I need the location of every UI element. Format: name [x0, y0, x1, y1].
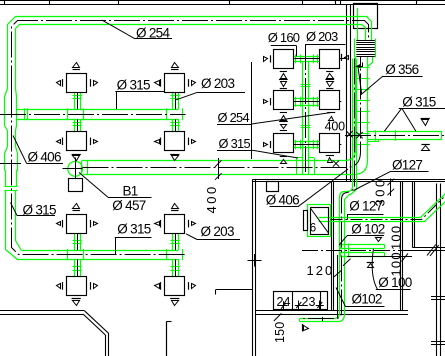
svg-text:Ø 406: Ø 406: [266, 192, 299, 207]
centerline right stubs: [294, 58, 346, 60]
diffuser right row1 colB right arrow: [341, 54, 343, 61]
duct upper branch start collars: [24, 108, 26, 120]
centerline Ø315 right branch: [345, 135, 444, 137]
wall: far right tick pair upper: [431, 296, 445, 298]
diffuser right row1 inflow arrow: [264, 57, 268, 62]
right colB row2-3 symbol and 400 label: [327, 112, 335, 114]
centerline pair B riser to bottom run: [303, 59, 355, 319]
duct Ø457 main run green lines: [82, 57, 356, 161]
duct middle riser green pair: [302, 62, 304, 175]
diffuser row3 col1 box: [67, 215, 87, 234]
label Ø100 underline+arc leader: [376, 289, 411, 291]
stair grille hatch lines: [356, 40, 375, 42]
wall: bottom-left vertical pair: [108, 334, 110, 356]
fan B1 motor box: [69, 179, 83, 192]
svg-text:Ø 203: Ø 203: [201, 224, 234, 239]
label Ø406 left underline+leader: [27, 163, 64, 165]
wall: door/column box on lower top wall: [267, 182, 279, 192]
centerline stubs col2: [175, 92, 177, 109]
svg-text:23: 23: [302, 295, 316, 309]
duct Ø127 run green lines: [319, 194, 445, 218]
diffuser row4 col2 box: [165, 277, 185, 296]
svg-text:300: 300: [372, 177, 387, 206]
duct riser-to-lower-room pair (pair B): [300, 59, 353, 319]
wall: lower rooms top double line: [252, 179, 445, 181]
svg-text:150: 150: [273, 322, 287, 343]
diffuser row4 col2 left arrow: [155, 284, 160, 289]
diffuser row2 col1 box: [67, 132, 87, 151]
duct lower-left elbow chamfer: [6, 241, 22, 260]
svg-text:Ø 406: Ø 406: [28, 149, 61, 164]
diffuser right row3 colA box: [274, 134, 294, 153]
dim 400 line and slashes on duct: [218, 158, 220, 179]
label Ø203 row1 underline+leader: [198, 92, 246, 94]
diffuser row2 col2 return-down symbol: [170, 154, 179, 156]
wall: far right tick pair lower: [431, 341, 445, 343]
diffuser row4 col2 right arrow: [188, 282, 190, 290]
svg-text:Ø 254: Ø 254: [136, 25, 170, 40]
diffuser row4 col2 return-down symbol: [170, 298, 179, 300]
centerline bar ducts lower: [347, 256, 412, 258]
damper tick on bottom run: [322, 317, 324, 321]
symbol delta right of branch: [422, 146, 430, 151]
duct Ø254 outer green line (top+left outer): [8, 17, 372, 89]
label Ø127 upper underline+leader: [391, 171, 429, 173]
label Ø315 branch triangle legs: [384, 108, 401, 131]
symbol nabla right of branch: [421, 118, 430, 120]
dim 150 slash: [274, 313, 282, 321]
duct riser flange joints: [354, 67, 370, 69]
diffuser row2 col2 box: [165, 132, 185, 151]
svg-text:Ø 203: Ø 203: [306, 29, 338, 44]
diffuser row1 col2 box: [165, 74, 185, 93]
diffuser row1 col1 right arrow: [90, 79, 92, 87]
svg-text:400: 400: [325, 119, 346, 133]
svg-text:Ø 315: Ø 315: [117, 77, 150, 92]
duct Ø254 inner green line (top+left inner): [16, 25, 366, 89]
duct stub col1 row3 (down from box): [74, 233, 76, 250]
duct bottom branch run green lines: [22, 250, 179, 252]
svg-text:Ø127: Ø127: [392, 157, 422, 172]
diffuser row2 col1 right arrow: [90, 138, 92, 146]
duct flange joint left vertical: [4, 186, 17, 188]
silencer unit 6 diagonal: [310, 208, 328, 233]
diffuser row1 col2 supply-up symbol: [172, 63, 179, 68]
duct middle riser flange joints: [301, 84, 311, 86]
wall: horizontal stub right room: [413, 247, 445, 249]
duct stub col1 row2 (up from box): [74, 119, 76, 132]
silencer unit 6 black body: [311, 208, 329, 235]
svg-text:Ø 315: Ø 315: [402, 95, 435, 110]
duct step-in at left vertical: [5, 170, 6, 172]
centerline Ø457 run with riser arc: [83, 57, 361, 168]
diffuser row2 col2 left arrow: [155, 140, 160, 144]
label Ø254 mid underline+leader: [217, 124, 252, 126]
centerline bar ducts upper: [302, 250, 432, 252]
junction X marks on Ø457: [333, 160, 339, 166]
svg-text:6: 6: [310, 223, 316, 235]
fan B1 cross lines: [75, 158, 77, 180]
wall: bottom-left chamfer diagonals: [85, 311, 109, 334]
silencer unit 6 green outline: [308, 205, 331, 237]
symbol air outlet mark bottom: [302, 324, 304, 332]
duct Ø102 bar 1 green outline: [340, 244, 385, 246]
table dividers: [292, 291, 294, 309]
svg-text:Ø 102: Ø 102: [351, 222, 384, 237]
label Ø315 lowleft underline+leader: [17, 215, 55, 217]
svg-text:Ø 315: Ø 315: [117, 221, 150, 236]
svg-text:Ø 254: Ø 254: [218, 110, 250, 125]
diffuser row4 col1 box: [67, 277, 87, 296]
table box: [274, 292, 328, 310]
right colA below row3 symbol: [280, 156, 287, 158]
centerline stubs col1: [77, 92, 79, 109]
duct Ø356 left vertical middle section: [6, 171, 17, 187]
wall: riser shaft box outline: [354, 4, 378, 29]
label Ø406 right underline+leader: [270, 206, 298, 208]
fan B1 inlet circle: [68, 161, 83, 176]
svg-text:Ø 315: Ø 315: [23, 202, 56, 217]
diffuser row3 col1 left arrow: [57, 222, 61, 226]
wall: riser shaft vertical pair: [346, 4, 348, 182]
diffuser right row2 inflow arrow: [264, 100, 268, 104]
duct stub col2 row1 (down from box): [172, 92, 174, 109]
dimension extension vline: [251, 62, 253, 159]
label Ø315 row3 underline+drop: [115, 237, 152, 239]
table cross marks: [280, 305, 288, 307]
duct stub col1 row4 (up from box): [74, 259, 76, 276]
diffuser row4 col1 left arrow: [57, 284, 61, 289]
label Ø315 row1 underline+drop: [115, 91, 165, 93]
duct stub right-group row3: [294, 141, 320, 143]
wall: far right vertical pair: [436, 184, 438, 356]
label B1 underline: [108, 197, 152, 199]
wall: slash marks on right stub wall: [427, 245, 436, 256]
centerline upper branch: [0, 114, 186, 116]
wall: tick on left room wall: [248, 260, 262, 262]
wall: short vertical pair upper right room: [412, 182, 414, 248]
diffuser row2 col2 right arrow: [188, 138, 190, 146]
diffuser right row2 colA box: [274, 91, 294, 110]
duct transition flare upper left: [5, 89, 17, 97]
diffuser row4 col1 return-down symbol: [72, 298, 81, 300]
svg-text:Ø102: Ø102: [352, 292, 382, 307]
label Ø127 mid underline+drop: [347, 214, 384, 216]
duct bar joint tick: [348, 243, 350, 257]
diffuser right row1 colB box: [320, 50, 340, 69]
diffuser right row3 colB box: [320, 134, 340, 153]
duct riser green line through shaft box: [357, 8, 359, 40]
svg-text:Ø 356: Ø 356: [385, 62, 418, 77]
label Ø102 upper underline+leader: [347, 235, 384, 237]
diffuser row1 col1 box: [67, 74, 87, 93]
svg-text:Ø 315: Ø 315: [219, 136, 251, 151]
right colA row2-3 symbols: [280, 112, 287, 114]
svg-text:Ø 160: Ø 160: [268, 30, 300, 45]
duct tee collar at upper branch: [5, 97, 17, 126]
centerline middle riser: [305, 44, 307, 172]
wall: top exterior double line: [0, 0, 445, 2]
svg-text:B1: B1: [123, 183, 138, 198]
diffuser row1 col2 right arrow: [188, 79, 190, 87]
duct Ø406 narrow between branches: [8, 131, 16, 147]
wall: top wall partition ticks: [4, 0, 6, 5]
wall: bottom middle vertical line: [166, 321, 168, 356]
label Ø356 underline+leader: [383, 76, 423, 78]
ladder green frame: [354, 39, 356, 58]
extension line at left edge: [0, 163, 21, 165]
duct stub col1 row1 (down from box): [74, 92, 76, 109]
diffuser row3 col2 left arrow: [155, 222, 160, 226]
label Ø102 lower underline+leader: [346, 306, 385, 308]
label Ø315 branch underline: [399, 108, 445, 110]
centerline left vertical to bottom branch: [12, 92, 186, 255]
diffuser row3 col1 supply-up symbol: [73, 204, 80, 209]
wall: vertical pair plant room right: [400, 182, 402, 311]
duct stub right-group row1: [294, 56, 320, 58]
svg-text:120: 120: [307, 263, 335, 278]
duct stub col2 row4 (up from box): [172, 259, 174, 276]
label Ø160 underline+drop: [271, 45, 297, 47]
diffuser row1 col2 left arrow: [155, 81, 160, 86]
right colA row1-2 symbols: [280, 71, 287, 73]
duct Ø315 right branch flange ticks: [375, 130, 377, 141]
duct Ø315 left vertical lower section: [6, 191, 16, 250]
svg-text:Ø 203: Ø 203: [201, 76, 234, 91]
diffuser right row3 inflow arrow: [264, 143, 268, 147]
duct Ø102 bar 2 green outline: [340, 252, 385, 254]
duct Ø406 left vertical wide section: [5, 154, 18, 171]
label Ø203 row3 underline+leader: [197, 239, 240, 241]
svg-text:100: 100: [388, 225, 403, 250]
diffuser right row1 colA box: [274, 50, 294, 69]
duct stub col2 row2 (up from box): [172, 119, 174, 132]
duct upper branch run green lines: [17, 109, 179, 111]
right colB below row3 symbol: [326, 155, 334, 157]
diffuser row1 col1 supply-up symbol: [73, 63, 80, 68]
wall: vertical pair left of lower-middle room: [252, 180, 254, 356]
silencer unit 6 flange plate: [304, 211, 308, 231]
dim 120 vline+slashes: [337, 255, 339, 318]
duct riser tee shoulders at Ø457: [296, 158, 298, 175]
diffuser row3 col1 right arrow: [90, 220, 92, 228]
diffuser row2 col1 return-down symbol: [72, 154, 81, 156]
symbol delta at bars: [367, 262, 374, 264]
dim 300 line+slashes: [390, 179, 392, 197]
duct stub right-group row2: [294, 98, 320, 100]
label Ø315 mid underline+leader: [217, 150, 252, 152]
diffuser row3 col2 right arrow: [188, 220, 190, 228]
wall: vertical pair right of lower-middle room: [331, 182, 333, 311]
duct bottom run end cap: [299, 318, 301, 321]
duct bottom branch tee collars: [67, 249, 69, 260]
centerline main loop top+left: [12, 21, 369, 92]
flow arrow in riser: [359, 63, 363, 67]
label Ø254 top leader: [102, 20, 135, 39]
fan B1 leader: [79, 173, 108, 198]
duct Ø457 start flange ticks: [81, 161, 83, 175]
duct transition flare mid left: [5, 147, 18, 154]
svg-text:Ø 457: Ø 457: [112, 198, 145, 213]
right colB row1-2 symbols: [326, 71, 333, 73]
diffuser row2 col1 left arrow: [57, 140, 61, 144]
centerline Ø127 run: [331, 198, 444, 220]
diffuser right row2 colB box: [320, 91, 340, 110]
diffuser row4 col1 right arrow: [90, 282, 92, 290]
symbol nabla at bars: [374, 235, 383, 237]
duct connector below ladder: [368, 57, 373, 67]
duct upper branch tee collars: [67, 108, 69, 120]
wall: bottom-middle horizontal double: [256, 310, 408, 312]
wall: stub wall with hook mid-left: [216, 289, 253, 291]
diffuser row1 col1 left arrow: [57, 81, 61, 86]
duct Ø315 right branch transition: [368, 140, 379, 142]
diffuser row3 col2 supply-up symbol: [172, 204, 179, 209]
svg-text:100: 100: [388, 251, 403, 276]
wall: bottom-left horizontal double: [0, 310, 85, 312]
diffuser row3 col2 box: [165, 215, 185, 234]
duct Ø315 right branch green lines: [368, 131, 442, 133]
label Ø203 right underline+drop: [305, 44, 346, 46]
svg-text:400: 400: [204, 184, 219, 213]
duct stub col2 row3 (down from box): [172, 233, 174, 250]
